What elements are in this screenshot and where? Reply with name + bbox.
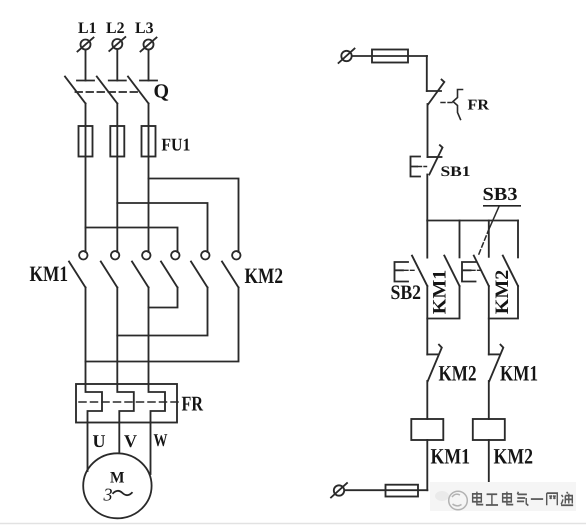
bottom page edge line (0, 523, 586, 525)
label 3~ (103, 485, 133, 505)
svg-text:SB1: SB1 (441, 164, 471, 180)
switch Q pole 1 (65, 77, 94, 104)
contactor KM1 main contact 2 (101, 251, 120, 287)
control circuit: node terminal top (339, 49, 355, 64)
thermal relay FR box (76, 384, 177, 423)
node terminal bottom (331, 483, 347, 498)
svg-text:FR: FR (182, 392, 204, 416)
wire KM1 output 3 to FR (148, 288, 150, 385)
wire bottom rail (345, 489, 428, 491)
wire KM1 output 1 to FR (85, 288, 87, 385)
svg-text:KM2: KM2 (492, 270, 513, 315)
wire L2 tap to KM2 pole 2 (117, 203, 207, 252)
svg-text:L3: L3 (135, 20, 154, 37)
relay contact FR (NC) (427, 80, 463, 120)
svg-text:KM1: KM1 (430, 270, 451, 315)
wire L3 tap to KM2 pole 3 (149, 179, 239, 253)
svg-text:KM1: KM1 (431, 444, 471, 469)
fuse FU2 (372, 50, 408, 63)
wire drop to KM2 aux (517, 221, 519, 258)
thermal relay FR heater 2 (117, 384, 134, 423)
svg-text:3: 3 (103, 485, 113, 505)
wire L1 to switch (85, 50, 87, 81)
svg-text:U: U (93, 431, 106, 451)
motor M circle (83, 453, 151, 518)
label SB3 with underline (483, 185, 522, 206)
svg-text:KM2: KM2 (245, 263, 284, 288)
wire FR to motor W (150, 423, 152, 475)
svg-text:KM1: KM1 (500, 360, 538, 385)
wire phase C down through fuse to contact 3 (148, 104, 150, 253)
wire FR to motor V (118, 423, 120, 454)
wire FR contact to SB1 (427, 104, 429, 157)
switch Q pole 3 (128, 77, 157, 104)
watermark logo (435, 491, 467, 510)
node L1 terminal (78, 38, 94, 52)
svg-text:L1: L1 (78, 20, 97, 37)
svg-text:V: V (124, 431, 137, 451)
contactor KM1 main contact 1 (69, 251, 88, 287)
wire SB2 branch down (426, 286, 428, 354)
fuse FU1 pole 2 (110, 126, 124, 157)
svg-text:KM2: KM2 (494, 444, 534, 469)
wire KM2 output 3 join (86, 288, 239, 362)
wire drop to KM1 aux (459, 221, 461, 258)
svg-text:SB3: SB3 (483, 185, 518, 205)
contactor KM2 aux contact (NO) (503, 256, 518, 286)
svg-text:FU1: FU1 (161, 135, 190, 155)
svg-text:SB2: SB2 (391, 282, 422, 304)
pushbutton SB2 (NO start) (395, 256, 428, 286)
wire L2 to switch (116, 49, 118, 80)
wire KM2 output 1 join (149, 288, 178, 308)
switch Q linkage (dashed) (76, 91, 142, 93)
node L3 terminal (141, 38, 157, 52)
interlock contact KM1 (NC) (489, 345, 504, 381)
pushbutton SB3 (NO start) (462, 256, 489, 286)
wire terminal to fuse FU2 (352, 55, 427, 57)
wire down to FR contact (426, 56, 428, 91)
wire bus (427, 220, 518, 222)
wire KM2 aux loop (489, 286, 518, 319)
svg-text:KM2: KM2 (439, 360, 477, 385)
contactor KM1 main contact 3 (132, 251, 151, 287)
wire FR to motor U (87, 423, 89, 472)
contactor KM2 main contact 3 (222, 251, 241, 287)
svg-text:FR: FR (468, 98, 490, 114)
wire KM1 output 2 to FR (116, 288, 118, 385)
interlock contact KM2 (NC) (427, 345, 442, 381)
svg-text:Q: Q (154, 81, 170, 103)
svg-text:W: W (154, 430, 168, 450)
wire KM2 output 2 join (117, 288, 207, 336)
node L2 terminal (109, 37, 125, 51)
wire phase A down through fuse to contact 1 (85, 104, 87, 253)
wire coil KM1 to bottom rail (426, 440, 428, 490)
watermark text 电工电气一网通 (473, 492, 573, 506)
wire drop to SB3 (488, 221, 490, 257)
wire SB3 branch down (488, 286, 490, 354)
wire phase B down through fuse to contact 2 (116, 104, 118, 253)
svg-text:L2: L2 (106, 20, 125, 37)
SB3 leader line (479, 207, 500, 256)
wire drop to SB2 (426, 221, 428, 258)
watermark background (430, 482, 576, 511)
wire KM2 NC to coil KM1 (426, 381, 428, 419)
wire L1 tap to KM2 pole 1 (86, 228, 178, 253)
contactor KM2 main contact 2 (191, 251, 210, 287)
coil KM2 (473, 419, 505, 440)
contactor KM2 main contact 1 (161, 251, 180, 287)
fuse FU1 pole 3 (142, 126, 156, 157)
coil KM1 (411, 419, 443, 440)
svg-text:KM1: KM1 (30, 261, 69, 286)
wire L3 to switch (148, 50, 150, 81)
wire KM1 aux loop (427, 286, 459, 319)
wire coil KM2 down (488, 440, 490, 488)
switch Q pole 2 (97, 77, 126, 104)
thermal relay FR linkage (dashed) (79, 401, 180, 403)
fuse FU3 (386, 485, 419, 497)
pushbutton SB1 (NC stop) (411, 145, 443, 176)
contactor KM1 aux contact (NO) (444, 256, 459, 286)
thermal relay FR heater 3 (149, 384, 166, 423)
wire KM1 NC to coil KM2 (488, 381, 490, 419)
fuse FU1 pole 1 (79, 126, 93, 157)
thermal relay FR heater 1 (86, 384, 103, 423)
wire SB1 to bus (426, 175, 428, 221)
